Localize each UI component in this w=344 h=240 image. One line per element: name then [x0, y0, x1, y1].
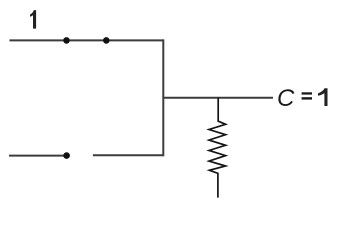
svg-text:C: C: [277, 85, 295, 112]
wire bottom-left segment: [9, 155, 64, 157]
wire middle horizontal to label: [163, 97, 273, 99]
junction dot bottom (open contact): [63, 152, 70, 159]
equals sign: [302, 92, 312, 94]
junction dot top-left: [63, 37, 70, 44]
wire bottom-right segment: [93, 154, 163, 156]
resistor R (vertical zigzag with leads): [209, 98, 226, 198]
wire top horizontal: [10, 39, 164, 41]
node label 1: [30, 10, 36, 29]
wire right vertical: [162, 39, 164, 156]
junction dot top-right: [103, 37, 110, 44]
value 1: [318, 88, 328, 106]
